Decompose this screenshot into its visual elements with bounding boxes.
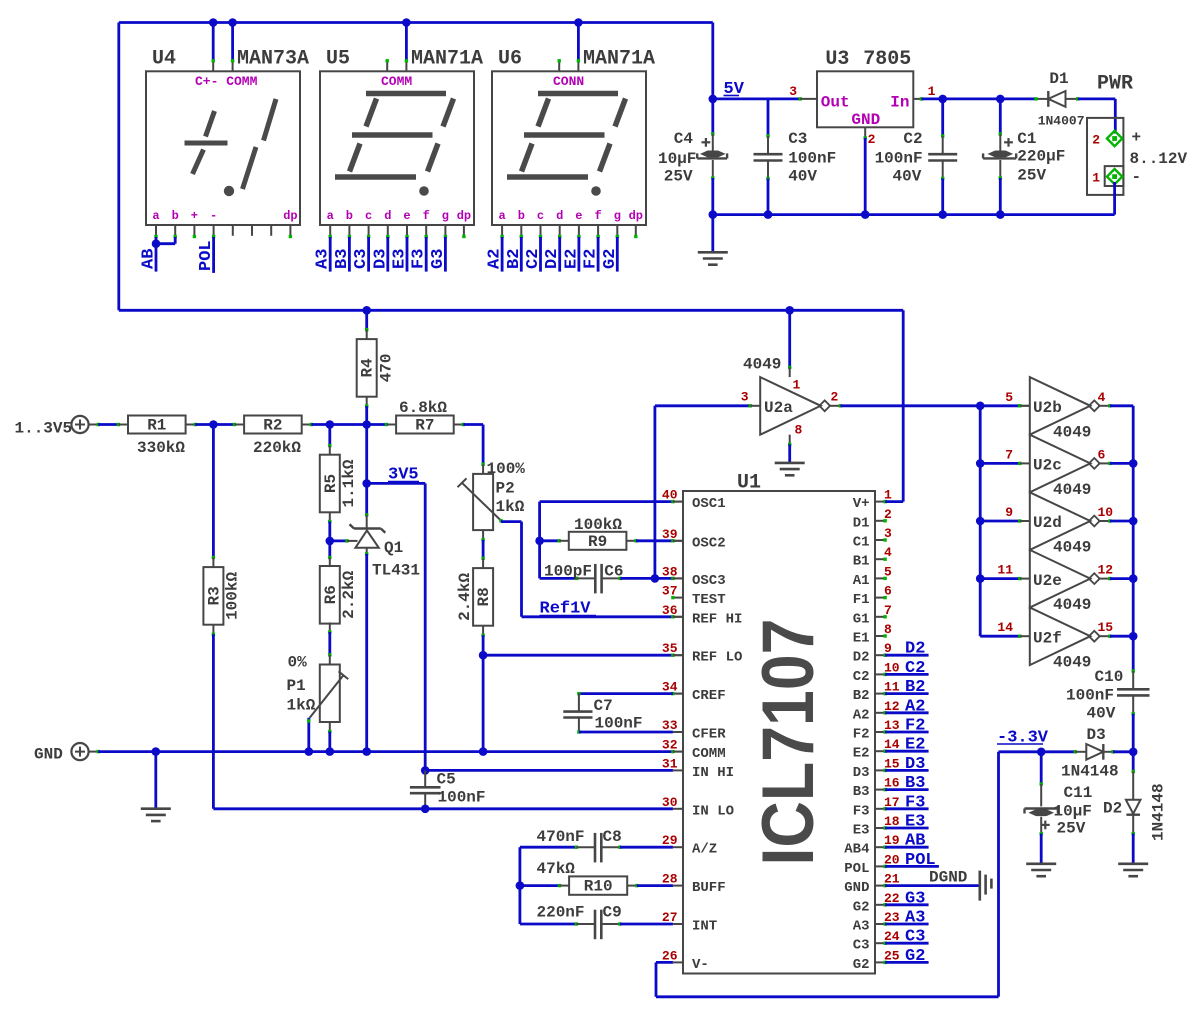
svg-text:E3: E3 bbox=[391, 249, 410, 269]
svg-text:U2c: U2c bbox=[1033, 457, 1062, 475]
svg-text:IN LO: IN LO bbox=[692, 803, 734, 819]
capacitor C1 plus sign bbox=[1004, 141, 1013, 143]
resistor R5 1.1k bbox=[328, 425, 331, 446]
svg-text:U5: U5 bbox=[326, 48, 350, 71]
IC U1 right pin 24 C3 bbox=[875, 942, 885, 944]
wire top 5V rail bbox=[119, 21, 713, 24]
svg-text:A1: A1 bbox=[853, 573, 870, 589]
svg-text:B2: B2 bbox=[505, 249, 524, 269]
IC U1 right pin 21 GND bbox=[875, 885, 885, 887]
svg-text:e: e bbox=[575, 209, 582, 223]
junction dot REF LO bbox=[479, 651, 488, 660]
wire net B3 bbox=[348, 237, 351, 272]
svg-text:1N4007: 1N4007 bbox=[1038, 114, 1085, 129]
wire bus to U2d input bbox=[980, 520, 1020, 523]
svg-text:D1: D1 bbox=[853, 515, 870, 531]
digit segment g bbox=[352, 132, 433, 138]
svg-text:TEST: TEST bbox=[692, 592, 726, 608]
digital ground symbol DGND bbox=[978, 871, 981, 901]
svg-text:220nF: 220nF bbox=[537, 904, 585, 922]
wire net 3V5 branch bbox=[367, 482, 426, 485]
svg-text:1kΩ: 1kΩ bbox=[287, 697, 316, 715]
svg-text:3: 3 bbox=[789, 84, 797, 99]
digit segment b bbox=[443, 99, 454, 127]
svg-text:10µF: 10µF bbox=[658, 150, 696, 168]
svg-text:C+- COMM: C+- COMM bbox=[195, 74, 258, 89]
resistor R4 470 bbox=[365, 310, 368, 329]
svg-text:8..12V: 8..12V bbox=[1130, 150, 1188, 168]
svg-text:POL: POL bbox=[197, 240, 216, 271]
wire C7 to CFER bbox=[577, 730, 580, 733]
svg-text:1: 1 bbox=[1092, 171, 1100, 186]
IC U1 right pin 7 G1 bbox=[875, 616, 885, 618]
capacitor C4 10uF polarized bbox=[711, 99, 714, 134]
svg-text:E1: E1 bbox=[853, 631, 870, 647]
svg-text:AB4: AB4 bbox=[844, 842, 869, 858]
wire IN LO row bbox=[213, 807, 673, 810]
wire U2d input stub bbox=[1018, 519, 1021, 522]
junction dot OSC3 / U2a input bbox=[651, 574, 660, 583]
digit segment g bbox=[524, 132, 605, 138]
digit segment d bbox=[507, 174, 588, 180]
capacitor C8 470nF on A/Z bbox=[520, 846, 577, 849]
svg-text:G3: G3 bbox=[905, 889, 925, 908]
svg-text:BUFF: BUFF bbox=[692, 880, 726, 896]
svg-text:U2a: U2a bbox=[764, 399, 793, 417]
digit segment e bbox=[522, 144, 533, 172]
svg-text:B1: B1 bbox=[853, 554, 870, 570]
potentiometer P2 1k bbox=[473, 474, 493, 530]
display U5 dp pin stub bbox=[463, 225, 465, 236]
svg-text:0%: 0% bbox=[288, 654, 308, 672]
junction dots on top rail bbox=[209, 18, 218, 27]
svg-text:1: 1 bbox=[793, 378, 801, 393]
svg-text:D3: D3 bbox=[371, 249, 390, 269]
wire net A2 bbox=[501, 237, 504, 272]
IC U1 ICL7107 body bbox=[683, 491, 875, 974]
svg-text:E2: E2 bbox=[562, 249, 581, 269]
resistor R3 100k bbox=[212, 425, 215, 558]
wire U2b input stub bbox=[1018, 404, 1021, 407]
digit segment a bbox=[538, 91, 618, 97]
wire -3.3V row bbox=[999, 750, 1076, 753]
IC U1 right pin 14 E2 bbox=[875, 750, 885, 752]
svg-text:2: 2 bbox=[831, 390, 839, 405]
svg-text:U2e: U2e bbox=[1033, 572, 1062, 590]
wire U2a ground pin 8 bbox=[789, 435, 791, 445]
svg-text:Q1: Q1 bbox=[384, 539, 403, 557]
svg-text:36: 36 bbox=[662, 603, 678, 618]
svg-text:47kΩ: 47kΩ bbox=[537, 860, 576, 878]
wire R8 bottom to REF LO bbox=[482, 626, 484, 636]
display U6 MAN71A body bbox=[492, 71, 646, 225]
wire inverter output bus bbox=[1132, 406, 1135, 636]
wire net C2 bbox=[539, 237, 542, 272]
svg-text:470: 470 bbox=[378, 353, 396, 382]
junction dot R5 tap bbox=[326, 420, 335, 429]
wire net label B2 on pin 11 bbox=[883, 692, 886, 695]
svg-text:DGND: DGND bbox=[929, 869, 967, 887]
svg-text:4049: 4049 bbox=[1053, 423, 1091, 441]
wire U2d output to bus bbox=[1098, 520, 1110, 522]
svg-text:dp: dp bbox=[283, 209, 297, 223]
svg-text:1: 1 bbox=[928, 84, 936, 99]
svg-text:Out: Out bbox=[821, 94, 850, 112]
svg-text:F3: F3 bbox=[853, 803, 870, 819]
svg-text:40: 40 bbox=[662, 488, 678, 503]
svg-text:U1: U1 bbox=[737, 472, 761, 495]
wire net G2 bbox=[616, 237, 619, 272]
capacitor C5 100nF bbox=[424, 770, 426, 787]
wire net POL from pin - bbox=[212, 237, 215, 273]
junction dot R5/R6/Q1-ref bbox=[326, 537, 335, 546]
svg-text:INT: INT bbox=[692, 919, 717, 935]
svg-text:f: f bbox=[594, 209, 601, 223]
resistor R10 47k on BUFF bbox=[520, 884, 560, 887]
svg-text:6: 6 bbox=[1098, 447, 1106, 462]
svg-text:9: 9 bbox=[1005, 505, 1013, 520]
junction dot inverter input bus top bbox=[976, 402, 985, 411]
svg-text:4049: 4049 bbox=[1053, 596, 1091, 614]
wire IN HI to U1 bbox=[425, 769, 673, 772]
svg-text:12: 12 bbox=[1098, 563, 1114, 578]
svg-text:R1: R1 bbox=[147, 417, 166, 435]
IC U1 right pin 17 F3 bbox=[875, 808, 885, 810]
IC U1 left pin 32 COMM bbox=[673, 751, 683, 753]
wire V+ drop to U1 pin1 bbox=[902, 310, 905, 501]
svg-text:R6: R6 bbox=[322, 585, 340, 604]
svg-text:a: a bbox=[327, 209, 334, 223]
IC U1 right pin 12 A2 bbox=[875, 712, 885, 714]
svg-text:-: - bbox=[1132, 168, 1142, 186]
wire net label D2 on pin 9 bbox=[883, 654, 886, 657]
svg-text:100nF: 100nF bbox=[1066, 687, 1114, 705]
wire net label C2 on pin 10 bbox=[883, 673, 886, 676]
svg-text:38: 38 bbox=[662, 564, 678, 579]
IC U1 right pin 3 C1 bbox=[875, 539, 885, 541]
IC U1 left pin 27 INT bbox=[673, 923, 683, 925]
wire net D2 bbox=[558, 237, 561, 272]
svg-text:2.2kΩ: 2.2kΩ bbox=[340, 570, 358, 618]
wire GND row to COMM pin bbox=[89, 751, 99, 753]
IC U1 left pin 28 BUFF bbox=[673, 885, 683, 887]
svg-text:D3: D3 bbox=[905, 755, 925, 774]
wire 5V filter to ground symbol bbox=[711, 215, 714, 253]
inverter U2e 4049 bbox=[1030, 550, 1091, 608]
svg-text:F1: F1 bbox=[853, 592, 870, 608]
svg-text:C7: C7 bbox=[594, 697, 613, 715]
digit segment b bbox=[615, 99, 626, 127]
wire net E3 bbox=[406, 237, 409, 272]
display U4 digit: plus-minus segment lower bbox=[193, 150, 204, 175]
svg-text:F2: F2 bbox=[582, 249, 601, 269]
svg-text:OSC2: OSC2 bbox=[692, 535, 726, 551]
capacitor C11 plus sign bbox=[1041, 824, 1050, 826]
diode D2 1N4148 bbox=[1132, 752, 1135, 772]
svg-text:2: 2 bbox=[868, 132, 876, 147]
svg-text:U2d: U2d bbox=[1033, 514, 1062, 532]
svg-text:GND: GND bbox=[34, 746, 63, 764]
svg-text:R3: R3 bbox=[205, 586, 223, 605]
svg-text:dp: dp bbox=[457, 209, 471, 223]
svg-text:P2: P2 bbox=[496, 480, 515, 498]
wire U1 V+ pin to rail bbox=[883, 500, 886, 503]
digit segment e bbox=[350, 144, 361, 172]
wire U2f input stub bbox=[1018, 635, 1021, 638]
junction dot output bus row U2e bbox=[1129, 574, 1138, 583]
display U4 MAN73A body bbox=[146, 71, 300, 225]
svg-text:C2: C2 bbox=[853, 669, 870, 685]
svg-text:470nF: 470nF bbox=[537, 828, 585, 846]
wire net label G3 on pin 22 bbox=[883, 903, 886, 906]
wire net label G2 on pin 25 bbox=[883, 961, 886, 964]
svg-text:100kΩ: 100kΩ bbox=[224, 572, 242, 620]
IC U1 right pin 18 E3 bbox=[875, 827, 885, 829]
wire left drop from top rail bbox=[117, 23, 120, 311]
junction dot output bus row U2c bbox=[1129, 459, 1138, 468]
svg-text:C1: C1 bbox=[853, 535, 870, 551]
svg-text:U3: U3 bbox=[825, 48, 849, 71]
svg-text:39: 39 bbox=[662, 527, 678, 542]
svg-text:25V: 25V bbox=[1017, 167, 1046, 185]
svg-text:F3: F3 bbox=[410, 249, 429, 269]
svg-text:100nF: 100nF bbox=[595, 715, 643, 733]
svg-text:D2: D2 bbox=[853, 650, 870, 666]
resistor R2 220k bbox=[244, 416, 302, 434]
IC U1 left pin 40 OSC1 bbox=[673, 501, 683, 503]
svg-text:100nF: 100nF bbox=[438, 789, 486, 807]
svg-text:In: In bbox=[890, 94, 909, 112]
svg-text:A2: A2 bbox=[853, 707, 870, 723]
IC U1 right pin 10 C2 bbox=[875, 673, 885, 675]
wire to Q1 ref bbox=[330, 540, 347, 543]
decimal point bbox=[591, 186, 601, 196]
wire bus to U2c input bbox=[980, 462, 1020, 465]
svg-text:B2: B2 bbox=[905, 678, 925, 697]
capacitor C3 100nF bbox=[767, 99, 770, 136]
wire U1 GND pin to DGND bbox=[883, 884, 886, 887]
svg-text:C10: C10 bbox=[1095, 668, 1124, 686]
svg-text:GND: GND bbox=[844, 880, 869, 896]
wire R3 to IN LO row bbox=[212, 625, 214, 635]
wire net label C3 on pin 24 bbox=[883, 942, 886, 945]
display U6 dp pin stub bbox=[635, 225, 637, 236]
svg-text:C4: C4 bbox=[674, 130, 694, 148]
display U6 bottom pins and segment net wires A2-G2 bbox=[501, 225, 503, 236]
svg-text:A2: A2 bbox=[905, 697, 925, 716]
svg-text:G2: G2 bbox=[853, 899, 870, 915]
svg-text:8: 8 bbox=[795, 423, 803, 438]
svg-text:10µF: 10µF bbox=[1054, 803, 1092, 821]
svg-text:b: b bbox=[518, 209, 525, 223]
svg-text:32: 32 bbox=[662, 738, 678, 753]
capacitor C1 220uF polarized bbox=[999, 99, 1002, 134]
wire net B2 bbox=[520, 237, 523, 272]
display U4 digit: plus-minus middle bar bbox=[185, 141, 228, 146]
wire R1 to R2 bbox=[186, 424, 196, 426]
wire R7 to P2 bbox=[454, 424, 464, 426]
svg-text:MAN71A: MAN71A bbox=[411, 48, 483, 71]
wire D1 to PWR pin 2 bbox=[1078, 98, 1116, 101]
IC U1 left pin 37 TEST bbox=[673, 597, 683, 599]
wire net label POL on pin 20 bbox=[883, 865, 886, 868]
svg-text:G2: G2 bbox=[853, 957, 870, 973]
IC U1 right pin 6 F1 bbox=[875, 597, 885, 599]
svg-text:C6: C6 bbox=[604, 563, 623, 581]
svg-text:R7: R7 bbox=[415, 417, 434, 435]
IC U1 right pin 11 B2 bbox=[875, 693, 885, 695]
junction dot IN HI bbox=[421, 766, 430, 775]
wire integrator left bus bbox=[519, 847, 522, 924]
wire net A3 bbox=[329, 237, 332, 272]
svg-text:220µF: 220µF bbox=[1017, 148, 1065, 166]
svg-text:4049: 4049 bbox=[743, 356, 781, 374]
digit segment c bbox=[600, 144, 611, 172]
IC U1 right pin 5 A1 bbox=[875, 577, 885, 579]
svg-text:35: 35 bbox=[662, 641, 678, 656]
junction dot output bus row U2d bbox=[1129, 517, 1138, 526]
svg-text:G1: G1 bbox=[853, 611, 870, 627]
wire net G3 bbox=[444, 237, 447, 272]
svg-text:P1: P1 bbox=[287, 677, 306, 695]
svg-text:14: 14 bbox=[997, 620, 1013, 635]
connector PWR body bbox=[1087, 118, 1123, 195]
svg-text:100kΩ: 100kΩ bbox=[574, 516, 622, 534]
wire PWR pin1 to ground rail bbox=[1113, 182, 1116, 215]
junction dot BUFF row bbox=[516, 881, 525, 890]
svg-text:dp: dp bbox=[629, 209, 643, 223]
svg-text:25V: 25V bbox=[1057, 820, 1086, 838]
wire 5V vertical bbox=[711, 23, 714, 99]
junction dot 3V5 tap bbox=[362, 479, 371, 488]
svg-text:B3: B3 bbox=[853, 784, 870, 800]
wire U2f output to bus bbox=[1098, 635, 1110, 637]
svg-text:15: 15 bbox=[1098, 620, 1114, 635]
digit segment c bbox=[428, 144, 439, 172]
wire U2e output to bus bbox=[1098, 578, 1110, 580]
digit segment d bbox=[335, 174, 416, 180]
wire P2 bottom to R8 bbox=[482, 530, 484, 540]
svg-text:CFER: CFER bbox=[692, 727, 726, 743]
svg-text:37: 37 bbox=[662, 584, 678, 599]
regulator U3 7805 body bbox=[817, 71, 913, 127]
svg-text:OSC1: OSC1 bbox=[692, 496, 726, 512]
wire net label A3 on pin 23 bbox=[883, 922, 886, 925]
wire U2b output to bus bbox=[1098, 405, 1110, 407]
svg-text:2.4kΩ: 2.4kΩ bbox=[456, 573, 474, 621]
wire net label E2 on pin 14 bbox=[883, 750, 886, 753]
wire U2c input stub bbox=[1018, 462, 1021, 465]
connector PWR pin 2 bbox=[1107, 131, 1122, 146]
IC U1 right pin 2 D1 bbox=[875, 520, 885, 522]
svg-text:100%: 100% bbox=[487, 460, 526, 478]
svg-text:G2: G2 bbox=[601, 249, 620, 269]
svg-text:COMM: COMM bbox=[381, 74, 412, 89]
IC U1 right pin 23 A3 bbox=[875, 923, 885, 925]
display U4 top pins + wires bbox=[212, 23, 215, 61]
svg-text:25V: 25V bbox=[664, 168, 693, 186]
svg-text:REF LO: REF LO bbox=[692, 650, 742, 666]
junction dot R9 left bbox=[535, 537, 544, 546]
wire net label A2 on pin 12 bbox=[883, 711, 886, 714]
ground symbol near C4 bbox=[698, 251, 728, 254]
svg-text:E2: E2 bbox=[905, 736, 925, 755]
wire P1 wiper to ground row bbox=[307, 718, 310, 752]
svg-text:4: 4 bbox=[1098, 390, 1106, 405]
wire net AB from pins a,b bbox=[155, 237, 158, 272]
regulator U3 pin GND bbox=[864, 127, 866, 138]
junction dot R4 bottom bbox=[362, 420, 371, 429]
svg-text:4049: 4049 bbox=[1053, 654, 1091, 672]
IC U1 left pin 36 REF HI bbox=[673, 616, 683, 618]
svg-text:OSC3: OSC3 bbox=[692, 573, 726, 589]
svg-text:C9: C9 bbox=[603, 904, 622, 922]
digit segment f bbox=[538, 99, 549, 127]
wire net label F2 on pin 13 bbox=[883, 730, 886, 733]
svg-text:GND: GND bbox=[851, 111, 880, 129]
svg-text:D2: D2 bbox=[543, 249, 562, 269]
svg-text:C1: C1 bbox=[1017, 130, 1036, 148]
svg-text:1.1kΩ: 1.1kΩ bbox=[340, 459, 358, 507]
svg-text:+: + bbox=[191, 209, 198, 223]
svg-text:B3: B3 bbox=[905, 774, 925, 793]
diode D3 1N4148 bbox=[1086, 744, 1103, 760]
svg-text:C5: C5 bbox=[437, 771, 456, 789]
wire U2a supply pin 1 bbox=[788, 310, 791, 367]
svg-text:R10: R10 bbox=[584, 878, 613, 896]
resistor R6 2.2k bbox=[328, 541, 331, 558]
svg-text:40V: 40V bbox=[788, 168, 817, 186]
svg-text:1..3V5: 1..3V5 bbox=[15, 420, 73, 438]
wire P1 bottom to ground row bbox=[329, 722, 331, 732]
svg-text:A3: A3 bbox=[314, 249, 333, 269]
svg-text:C3: C3 bbox=[352, 249, 371, 269]
display U5 MAN71A body bbox=[320, 71, 474, 225]
junction dot U2a supply bbox=[785, 306, 794, 315]
svg-text:R5: R5 bbox=[322, 474, 340, 493]
display U4 digit: segment b of 1 bbox=[264, 99, 277, 141]
wire net C3 bbox=[367, 237, 370, 272]
IC U1 left pin 38 OSC3 bbox=[673, 577, 683, 579]
svg-text:D1: D1 bbox=[1049, 70, 1068, 88]
digit segment a bbox=[366, 91, 446, 97]
display U6 top pins bbox=[558, 61, 560, 72]
capacitor C11 10uF polarized bbox=[1040, 752, 1043, 784]
junction dot input bus row U2c bbox=[976, 459, 985, 468]
svg-text:C8: C8 bbox=[603, 828, 622, 846]
IC U1 right pin 20 POL bbox=[875, 865, 885, 867]
regulator U3 pin Out bbox=[800, 98, 817, 100]
IC U1 left pin 34 CREF bbox=[673, 693, 683, 695]
svg-text:11: 11 bbox=[997, 563, 1013, 578]
wire 5V node to 7805 Out bbox=[713, 98, 800, 101]
svg-text:C11: C11 bbox=[1064, 784, 1093, 802]
svg-text:1N4148: 1N4148 bbox=[1061, 763, 1119, 781]
ground symbol C11 bbox=[1026, 862, 1056, 865]
svg-text:7805: 7805 bbox=[863, 48, 911, 71]
svg-text:C2: C2 bbox=[524, 249, 543, 269]
svg-text:R2: R2 bbox=[263, 417, 282, 435]
svg-text:G2: G2 bbox=[905, 947, 925, 966]
IC U1 right pin 22 G2 bbox=[875, 904, 885, 906]
svg-text:4049: 4049 bbox=[1053, 481, 1091, 499]
wire bus to U2f input bbox=[980, 635, 1020, 638]
inverter U2d 4049 bbox=[1030, 492, 1091, 550]
wire net E2 bbox=[578, 237, 581, 272]
IC U1 right pin 4 B1 bbox=[875, 558, 885, 560]
resistor R7 6.8k bbox=[396, 416, 454, 434]
svg-text:F2: F2 bbox=[853, 727, 870, 743]
